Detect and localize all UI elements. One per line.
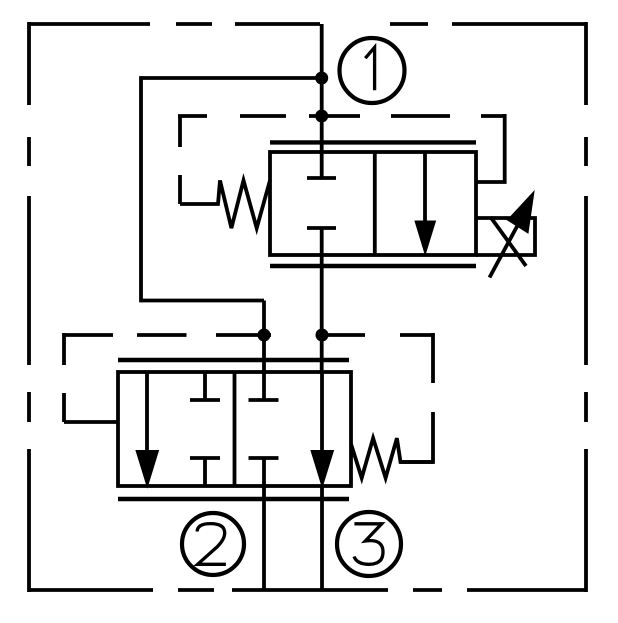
- pilot line valve1 dashed top: [178, 114, 505, 118]
- pilot line valve2 dashed left edge: [62, 333, 66, 422]
- junction node at pilot line valve1: [315, 110, 328, 123]
- proportional adjust arrow shaft: [490, 219, 522, 278]
- junction node pilot valve2 left: [258, 329, 271, 342]
- valve V1 body box: [270, 152, 476, 255]
- valve V1 blocked port lower T-bar: [307, 226, 336, 230]
- junction node at port1 upper: [315, 72, 328, 85]
- valve V2 left flow arrow shaft: [145, 372, 149, 455]
- spring S2 (valve V2 right): [351, 438, 433, 478]
- valve V2 body box: [118, 372, 351, 486]
- cartridge boundary dashed border top: [29, 22, 586, 26]
- cartridge boundary dashed border right: [584, 22, 588, 592]
- cartridge boundary dashed border bottom: [29, 588, 586, 592]
- solenoid coil box (valve V1): [476, 218, 535, 255]
- wire port2 vertical upper: [262, 301, 266, 401]
- wire port1 main vertical upper: [320, 24, 324, 178]
- port number 2: [197, 524, 226, 565]
- valve V1 position divider: [373, 152, 377, 255]
- wire upper-left branch horizontal: [141, 76, 322, 80]
- valve V2 left blocked port lower T: [190, 458, 220, 486]
- valve V1 upper rail: [270, 140, 476, 144]
- valve V2 right flow arrow head: [311, 451, 334, 488]
- pilot line valve2 right elbow to spring: [400, 412, 433, 462]
- wire port1 main vertical middle: [320, 228, 324, 372]
- valve V2 upper rail: [118, 358, 349, 362]
- port label circle 3: [337, 512, 401, 576]
- valve V1 flow arrow shaft: [423, 152, 427, 232]
- wire port3 below lower valve: [320, 486, 324, 590]
- port number 3: [354, 524, 383, 565]
- valve V2 lower rail: [118, 497, 349, 501]
- wire upper-left branch vertical: [139, 76, 143, 302]
- solenoid energize slash: [491, 217, 527, 266]
- valve V2 left blocked port upper T: [190, 372, 220, 400]
- proportional adjust arrow head: [508, 192, 535, 234]
- pilot line valve2 left stub into box: [64, 420, 119, 424]
- valve V2 position divider: [233, 372, 237, 486]
- pilot line valve2 dashed top: [64, 333, 433, 337]
- valve V2 right blocked port upper T-bar: [249, 398, 279, 402]
- valve V2 left flow arrow head: [136, 451, 159, 488]
- pilot line valve1 dashed left edge: [178, 115, 182, 204]
- valve V1 flow arrow head: [415, 221, 436, 255]
- valve V2 right blocked port lower T-bar: [249, 456, 279, 460]
- junction node pilot valve2 right: [316, 329, 329, 342]
- wire lower branch horizontal: [141, 299, 264, 303]
- port number 1: [365, 47, 374, 90]
- spring S1 (valve V1 left): [180, 180, 270, 228]
- cartridge boundary dashed border left: [27, 22, 31, 592]
- valve V2 right flow arrow shaft: [320, 372, 324, 455]
- pilot line valve2 dashed right edge: [431, 333, 435, 383]
- valve V1 lower rail: [270, 264, 476, 268]
- port label circle 2: [182, 513, 244, 575]
- port label circle 1: [340, 38, 405, 103]
- valve V1 blocked port upper T-bar: [307, 176, 336, 180]
- pilot feedback wire valve1 right: [476, 114, 505, 182]
- wire port2 vertical lower: [262, 458, 266, 590]
